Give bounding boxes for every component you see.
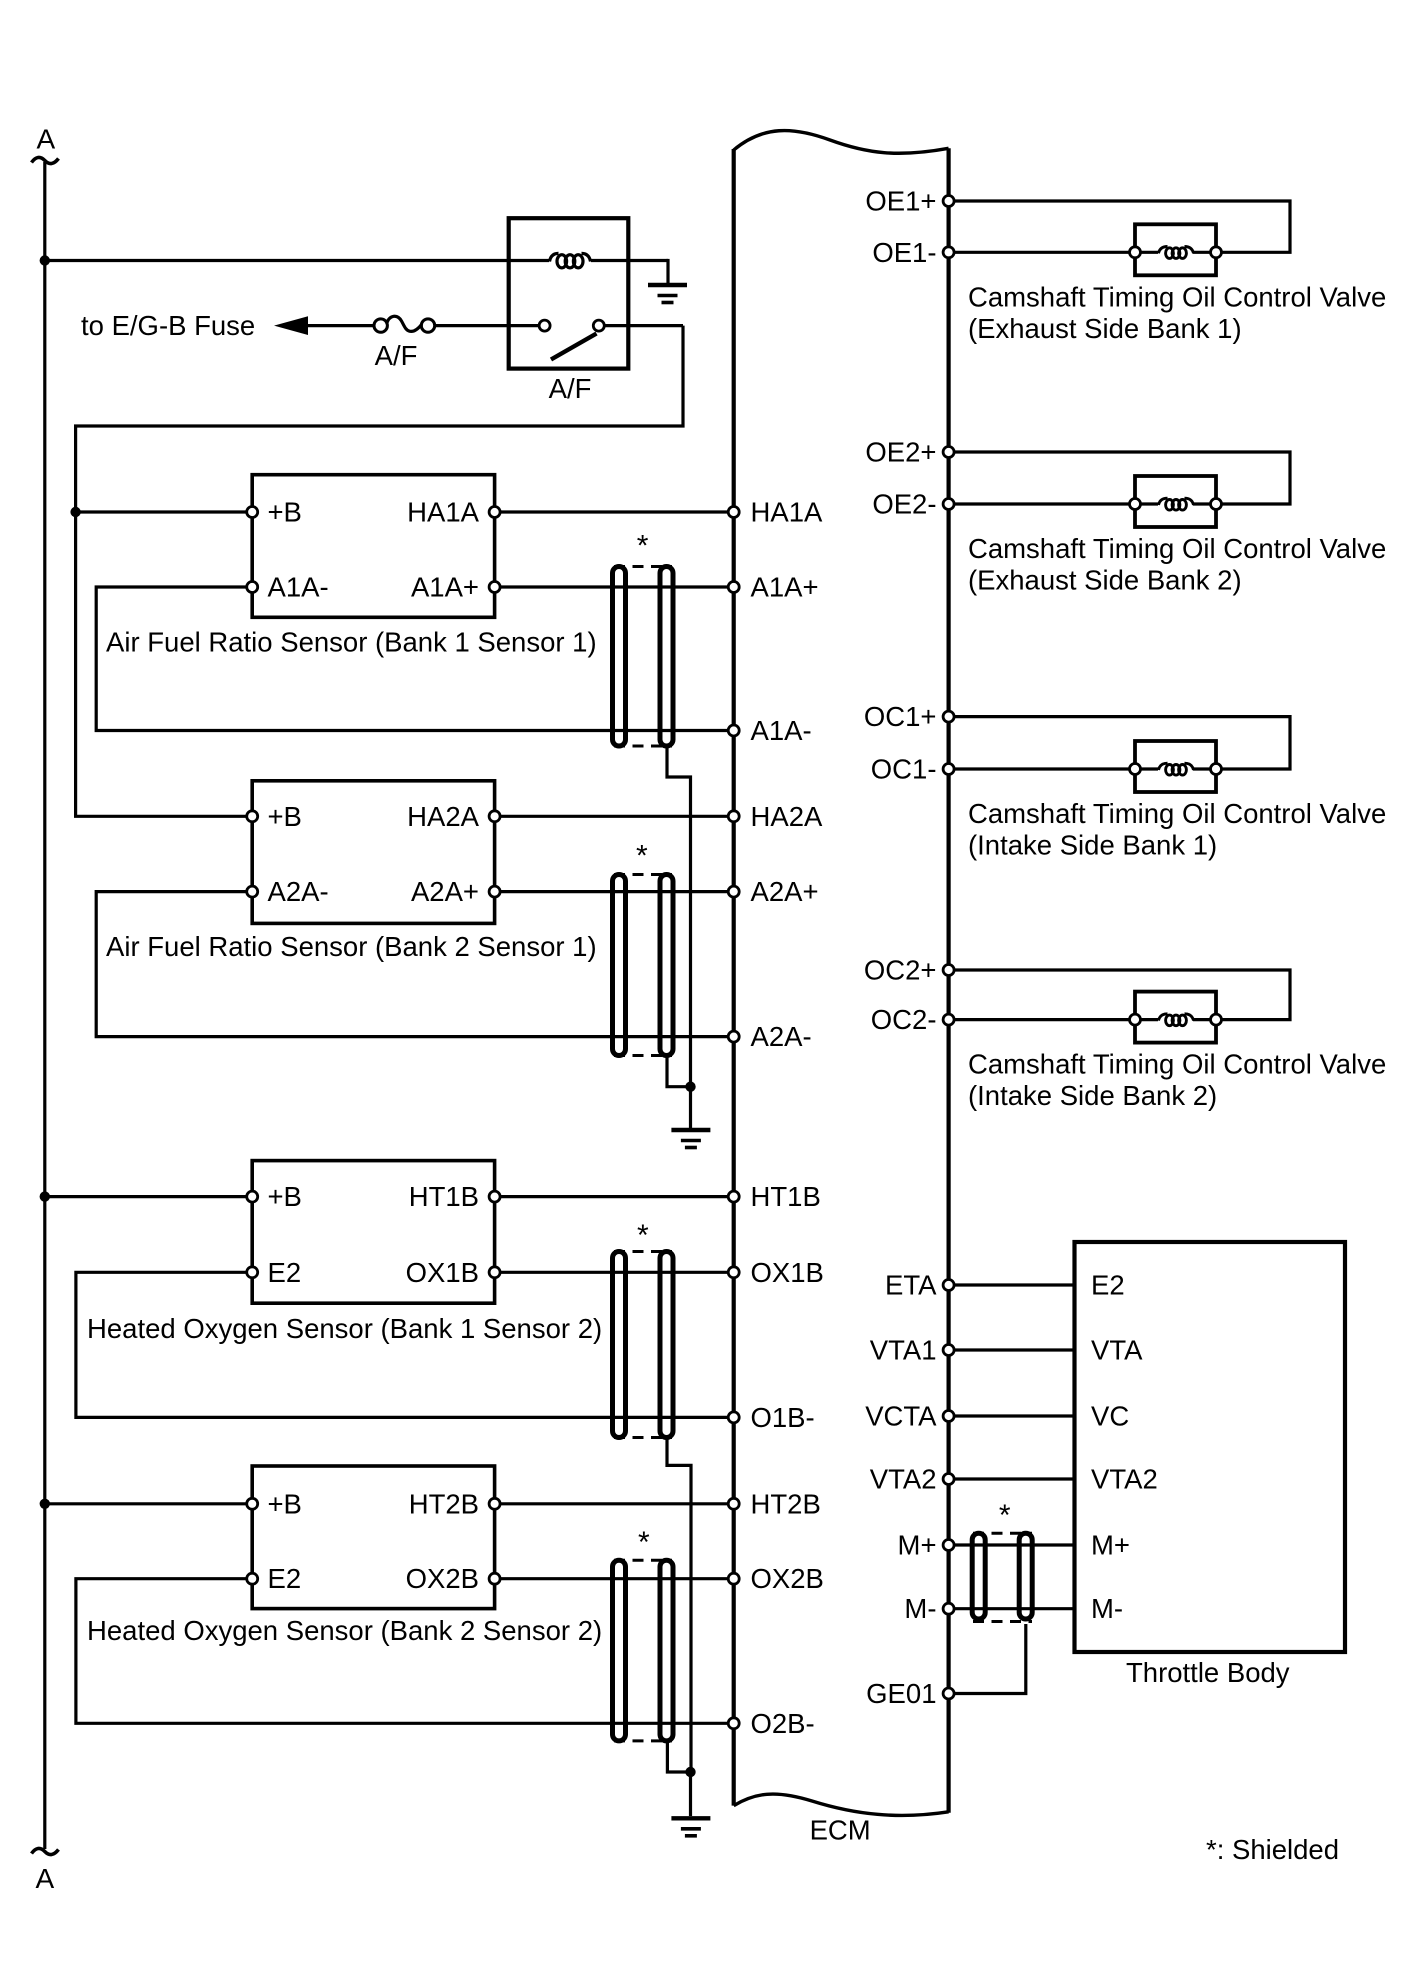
svg-text:*: * — [638, 1526, 650, 1559]
svg-text:OC2+: OC2+ — [864, 955, 937, 986]
svg-text:M+: M+ — [898, 1530, 937, 1561]
svg-text:+B: +B — [268, 1488, 302, 1519]
svg-text:+B: +B — [268, 1181, 302, 1212]
svg-text:Camshaft Timing Oil Control Va: Camshaft Timing Oil Control Valve — [968, 798, 1386, 829]
svg-text:A1A+: A1A+ — [751, 572, 819, 603]
svg-text:A/F: A/F — [549, 373, 592, 404]
svg-text:GE01: GE01 — [866, 1678, 936, 1709]
svg-text:*: * — [637, 1219, 649, 1252]
svg-text:HT1B: HT1B — [409, 1181, 479, 1212]
svg-text:HT2B: HT2B — [751, 1488, 821, 1519]
svg-text:A2A+: A2A+ — [411, 876, 479, 907]
svg-text:(Intake Side Bank 1): (Intake Side Bank 1) — [968, 830, 1217, 861]
svg-text:+B: +B — [268, 497, 302, 528]
svg-text:+B: +B — [268, 801, 302, 832]
svg-text:VC: VC — [1091, 1401, 1129, 1432]
svg-text:*: * — [637, 530, 649, 563]
svg-text:OC1-: OC1- — [871, 754, 937, 785]
svg-text:HA1A: HA1A — [751, 497, 823, 528]
svg-text:VCTA: VCTA — [865, 1401, 937, 1432]
svg-text:OC1+: OC1+ — [864, 701, 937, 732]
svg-text:OX1B: OX1B — [751, 1257, 824, 1288]
svg-text:(Exhaust Side Bank 1): (Exhaust Side Bank 1) — [968, 313, 1242, 344]
svg-text:M+: M+ — [1091, 1530, 1130, 1561]
svg-text:A: A — [37, 124, 56, 155]
svg-text:HT2B: HT2B — [409, 1488, 479, 1519]
svg-text:OE1-: OE1- — [872, 237, 936, 268]
svg-text:A/F: A/F — [375, 340, 418, 371]
svg-text:HA2A: HA2A — [751, 801, 823, 832]
svg-text:E2: E2 — [268, 1563, 302, 1594]
svg-text:OE2+: OE2+ — [865, 437, 936, 468]
svg-text:A1A+: A1A+ — [411, 572, 479, 603]
svg-text:E2: E2 — [1091, 1270, 1125, 1301]
svg-text:E2: E2 — [268, 1257, 302, 1288]
svg-text:Camshaft Timing Oil Control Va: Camshaft Timing Oil Control Valve — [968, 1049, 1386, 1080]
svg-text:OX2B: OX2B — [406, 1563, 479, 1594]
svg-text:HA2A: HA2A — [407, 801, 479, 832]
svg-text:OX2B: OX2B — [751, 1563, 824, 1594]
svg-text:*: Shielded: *: Shielded — [1206, 1834, 1339, 1865]
svg-text:VTA2: VTA2 — [870, 1464, 937, 1495]
svg-text:Air Fuel Ratio Sensor (Bank 2: Air Fuel Ratio Sensor (Bank 2 Sensor 1) — [106, 931, 597, 962]
svg-text:A2A-: A2A- — [751, 1021, 812, 1052]
svg-text:to E/G-B Fuse: to E/G-B Fuse — [81, 310, 255, 341]
svg-text:*: * — [999, 1499, 1011, 1532]
svg-text:HT1B: HT1B — [751, 1181, 821, 1212]
svg-text:OX1B: OX1B — [406, 1257, 479, 1288]
svg-text:VTA2: VTA2 — [1091, 1464, 1158, 1495]
svg-text:(Intake Side Bank 2): (Intake Side Bank 2) — [968, 1080, 1217, 1111]
svg-text:OE1+: OE1+ — [865, 186, 936, 217]
svg-text:A1A-: A1A- — [751, 715, 812, 746]
svg-text:A2A-: A2A- — [268, 876, 329, 907]
svg-text:Heated Oxygen Sensor (Bank 1 S: Heated Oxygen Sensor (Bank 1 Sensor 2) — [87, 1313, 602, 1344]
svg-text:Camshaft Timing Oil Control Va: Camshaft Timing Oil Control Valve — [968, 281, 1386, 312]
svg-text:HA1A: HA1A — [407, 497, 479, 528]
svg-text:Camshaft Timing Oil Control Va: Camshaft Timing Oil Control Valve — [968, 533, 1386, 564]
svg-text:M-: M- — [1091, 1593, 1123, 1624]
svg-text:OC2-: OC2- — [871, 1004, 937, 1035]
svg-text:Air Fuel Ratio Sensor (Bank 1: Air Fuel Ratio Sensor (Bank 1 Sensor 1) — [106, 627, 597, 658]
svg-text:Heated Oxygen Sensor (Bank 2 S: Heated Oxygen Sensor (Bank 2 Sensor 2) — [87, 1615, 602, 1646]
svg-text:O1B-: O1B- — [751, 1402, 815, 1433]
svg-text:ECM: ECM — [810, 1815, 871, 1846]
svg-text:(Exhaust Side Bank 2): (Exhaust Side Bank 2) — [968, 565, 1242, 596]
svg-text:VTA1: VTA1 — [870, 1335, 937, 1366]
svg-text:ETA: ETA — [885, 1270, 937, 1301]
svg-text:A2A+: A2A+ — [751, 876, 819, 907]
svg-text:OE2-: OE2- — [872, 489, 936, 520]
svg-text:Throttle Body: Throttle Body — [1126, 1657, 1290, 1688]
svg-text:*: * — [636, 840, 648, 873]
svg-text:A1A-: A1A- — [268, 572, 329, 603]
svg-text:M-: M- — [904, 1593, 936, 1624]
svg-text:A: A — [36, 1863, 55, 1894]
svg-text:VTA: VTA — [1091, 1335, 1143, 1366]
svg-text:O2B-: O2B- — [751, 1708, 815, 1739]
